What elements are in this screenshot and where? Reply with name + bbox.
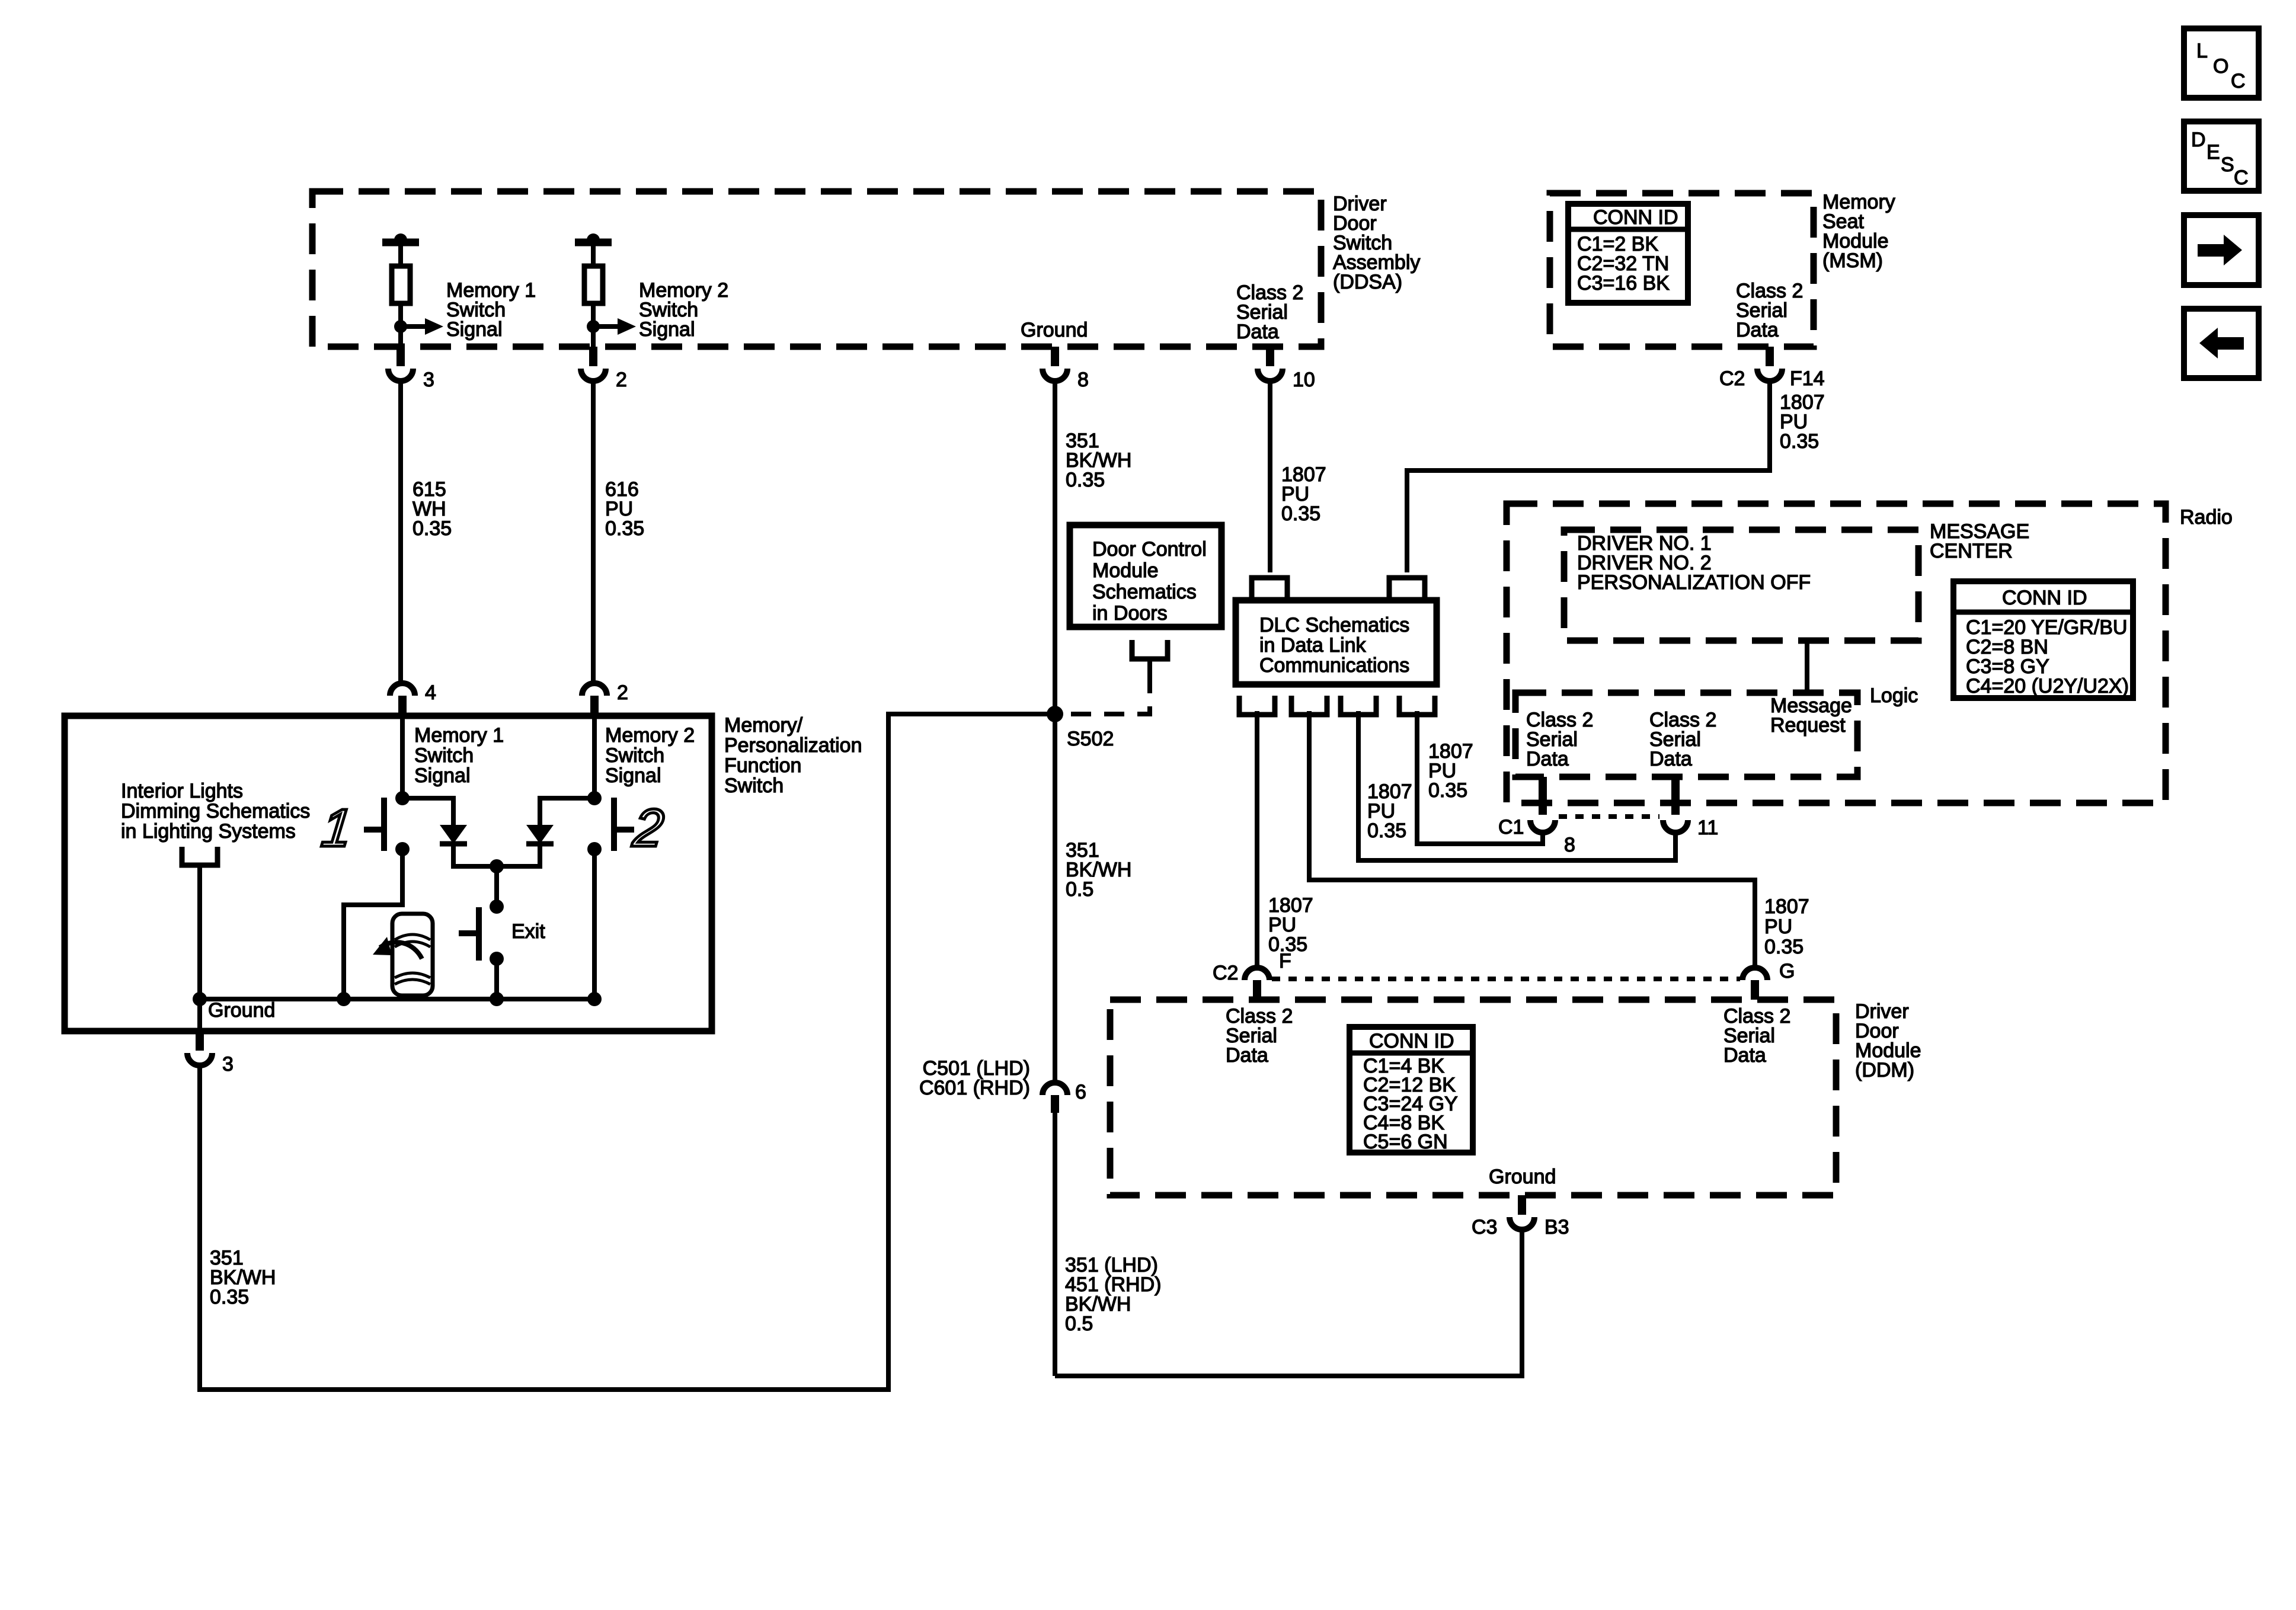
bracket below Door Control Module box (1132, 640, 1168, 659)
svg-text:0.35: 0.35 (412, 517, 452, 540)
svg-text:Data: Data (1649, 748, 1692, 770)
box Door Control Module reference (1070, 525, 1221, 627)
label wire 1807 PU 0.35 pin10 (1281, 463, 1326, 525)
switch 1 actuator (364, 827, 381, 833)
connector pin 10 DDSA serial data (1266, 347, 1274, 366)
svg-text:Schematics: Schematics (1092, 581, 1197, 603)
svg-text:8: 8 (1077, 369, 1089, 391)
svg-text:Communications: Communications (1259, 654, 1409, 677)
label Class 2 Serial Data radio left (1526, 709, 1593, 770)
node switch 1 bottom dot (395, 842, 410, 856)
svg-text:3: 3 (222, 1053, 234, 1076)
wire R1 to pin 3 (398, 303, 403, 347)
node R1 top dot (394, 233, 407, 247)
svg-text:S: S (2221, 153, 2234, 176)
label MSM conn rows (1577, 233, 1670, 295)
svg-text:C601 (RHD): C601 (RHD) (919, 1077, 1030, 1099)
table CONN ID DDM (1350, 1027, 1473, 1153)
svg-text:0.35: 0.35 (1428, 779, 1467, 802)
label wire 351 BK/WH 0.5 (1066, 839, 1131, 901)
svg-text:2: 2 (617, 681, 628, 704)
wire R1 stem (398, 242, 403, 266)
connector C3 B3 DDM (1518, 1195, 1526, 1215)
wire dotted link F G (1272, 977, 1740, 981)
svg-text:Ground: Ground (208, 999, 275, 1022)
wire DLC pin2 to DDM connector G (1309, 711, 1755, 967)
label MSM name (1822, 191, 1895, 272)
label wire 616 PU 0.35 (605, 478, 644, 540)
svg-text:DLC Schematics: DLC Schematics (1259, 614, 1409, 636)
svg-text:Signal: Signal (446, 318, 503, 341)
svg-text:Switch: Switch (724, 774, 784, 797)
wire diode 1 to junction (453, 844, 497, 866)
svg-text:Module: Module (1092, 559, 1159, 582)
bracket DLC bottom pin 2 (1291, 696, 1327, 715)
svg-text:2: 2 (630, 798, 667, 858)
svg-text:Exit: Exit (511, 920, 545, 943)
svg-text:F: F (1279, 950, 1291, 972)
svg-text:Request: Request (1770, 714, 1846, 737)
svg-text:0.35: 0.35 (1367, 820, 1406, 842)
box Logic dashed border (1515, 693, 1857, 777)
svg-text:E: E (2207, 141, 2220, 164)
label Class 2 Serial Data radio right (1649, 709, 1716, 770)
exit switch contact bar (476, 907, 482, 961)
wire 351 BK/WH 0.35 left ground run (200, 714, 1051, 1390)
svg-text:0.35: 0.35 (1066, 469, 1105, 491)
icon box arrow left (2184, 309, 2259, 378)
resistor R1 (392, 266, 410, 303)
label wire 351 BK/WH 0.35 left (210, 1247, 276, 1308)
label DDSA name (1333, 193, 1420, 293)
svg-text:O: O (2213, 55, 2228, 78)
icon box arrow right (2184, 215, 2259, 285)
node ground bus dot B (337, 992, 351, 1006)
svg-text:4: 4 (425, 681, 436, 704)
label wire 351 BK/WH 0.35 upper (1066, 430, 1131, 491)
svg-text:PU: PU (1764, 916, 1792, 938)
label wire 615 WH 0.35 (412, 478, 452, 540)
svg-text:Data: Data (1723, 1044, 1766, 1067)
bracket DLC top pin A (1252, 578, 1287, 597)
diode D1 (440, 825, 467, 844)
wire 616 PU (591, 382, 596, 681)
svg-text:Memory/: Memory/ (724, 714, 803, 737)
node switch 2 top dot (587, 791, 602, 805)
wire switch 1 to ground bus (344, 849, 402, 999)
wire 351/451 BK/WH below connector 6 (1053, 1113, 1057, 1376)
svg-text:Radio: Radio (2180, 506, 2233, 529)
label Memory 1 Switch Signal (446, 279, 536, 341)
wire R2 to pin 2 (591, 303, 596, 347)
wire DDM ground to connector 6 (1055, 1230, 1522, 1376)
svg-text:C: C (2234, 167, 2249, 189)
connector 6 C501/C601 (1043, 1083, 1067, 1095)
svg-text:CONN ID: CONN ID (1369, 1030, 1454, 1052)
icon box DESC (2184, 121, 2259, 191)
bracket Interior Lights reference (182, 847, 218, 865)
svg-text:Switch: Switch (414, 744, 474, 767)
connector C2 F DDM (1245, 968, 1269, 980)
wire exit switch to ground bus (494, 959, 499, 999)
svg-text:10: 10 (1293, 369, 1315, 391)
node ground bus dot C (490, 992, 504, 1006)
bracket DLC top pin B (1389, 578, 1425, 597)
svg-text:Door Control: Door Control (1092, 538, 1207, 561)
node exit switch top dot (490, 900, 504, 914)
resistor R2 (584, 266, 603, 303)
label Class 2 Serial Data DDSA (1236, 281, 1303, 343)
resistor R1 terminal bar (382, 239, 419, 247)
svg-text:G: G (1779, 960, 1795, 982)
svg-text:1807: 1807 (1764, 895, 1809, 918)
svg-text:0.5: 0.5 (1065, 1313, 1093, 1335)
signal arrow Memory 2 (593, 324, 618, 329)
wire message request (1805, 641, 1809, 693)
svg-text:S502: S502 (1067, 728, 1114, 750)
switch 2 actuator (617, 827, 634, 833)
svg-text:Memory 1: Memory 1 (414, 724, 504, 747)
box Memory Seat Module MSM dashed border (1550, 193, 1814, 347)
box Driver Door Switch Assembly DDSA dashed border (312, 191, 1321, 347)
box DLC Schematics reference (1236, 600, 1437, 684)
wire switch 2 to ground bus (592, 849, 597, 999)
label Door Control Module Schematics in Doors (1092, 538, 1207, 625)
label Memory Personalization Function Switch (724, 714, 862, 797)
svg-text:CONN ID: CONN ID (1593, 206, 1678, 229)
svg-text:0.35: 0.35 (605, 517, 644, 540)
svg-text:Signal: Signal (605, 764, 661, 787)
resistor R2 terminal bar (575, 239, 612, 247)
box Radio dashed border (1507, 504, 2166, 803)
label Memory 2 Switch Signal inside (605, 724, 695, 787)
label radio conn rows (1966, 616, 2129, 697)
label C501 LHD C601 RHD (919, 1057, 1030, 1099)
svg-text:C3=16 BK: C3=16 BK (1577, 272, 1670, 295)
bracket DLC bottom pin 3 (1341, 696, 1376, 715)
label Memory 2 Switch Signal (639, 279, 728, 341)
svg-text:1: 1 (319, 798, 355, 858)
svg-text:Dimming Schematics: Dimming Schematics (121, 800, 310, 822)
label Memory 1 Switch Signal inside (414, 724, 504, 787)
wire diode 2 to junction (497, 844, 540, 866)
wire stub from bracket (1147, 659, 1152, 673)
svg-text:Data: Data (1236, 321, 1279, 343)
wire diode 2 branch (540, 798, 594, 825)
svg-text:Signal: Signal (639, 318, 695, 341)
wire 1807 PU from MSM to DLC (1407, 382, 1770, 572)
connector G DDM (1742, 968, 1767, 980)
svg-text:C: C (2231, 70, 2246, 92)
node R2 junction dot (587, 320, 600, 333)
label DDM conn rows (1363, 1055, 1458, 1153)
svg-text:B3: B3 (1544, 1216, 1569, 1238)
switch 1 contact bar (381, 798, 387, 851)
svg-text:Data: Data (1226, 1044, 1268, 1067)
svg-text:0.35: 0.35 (1764, 936, 1803, 958)
svg-text:Ground: Ground (1021, 319, 1088, 341)
node R1 junction dot (394, 320, 407, 333)
svg-text:Data: Data (1736, 319, 1779, 341)
svg-text:C2: C2 (1213, 962, 1238, 984)
svg-text:11: 11 (1697, 817, 1718, 839)
wire R2 stem (591, 242, 596, 266)
bracket DLC bottom pin 4 (1399, 696, 1435, 715)
label wire 351 LHD 451 RHD BK/WH 0.5 (1065, 1254, 1161, 1335)
svg-text:(DDSA): (DDSA) (1333, 271, 1402, 293)
box Driver Door Module DDM dashed border (1110, 1000, 1836, 1195)
svg-text:(MSM): (MSM) (1822, 249, 1883, 272)
connector pin 3 DDSA (396, 347, 405, 366)
svg-text:in Lighting Systems: in Lighting Systems (121, 820, 296, 843)
svg-text:Logic: Logic (1870, 684, 1918, 707)
label wire 1807 PU 0.35 to F (1268, 894, 1313, 956)
wire dotted link pin8 pin11 (1559, 814, 1659, 819)
svg-text:Function: Function (724, 754, 801, 777)
connector pin 8 DDSA ground (1051, 347, 1059, 366)
connector pin 4 above memory box (390, 683, 415, 696)
bracket DLC bottom pin 1 (1239, 696, 1275, 715)
svg-text:in Doors: in Doors (1092, 602, 1168, 625)
label DDM name (1855, 1000, 1921, 1081)
label wire 1807 PU 0.35 MSM (1780, 391, 1825, 453)
svg-text:PERSONALIZATION OFF: PERSONALIZATION OFF (1577, 571, 1811, 594)
node S502 junction dot (1047, 706, 1063, 722)
wire 1807 PU from DDSA pin 10 to DLC (1268, 382, 1272, 572)
label Class 2 Serial Data DDM left (1226, 1005, 1293, 1067)
box Memory Personalization Function Switch (65, 716, 712, 1031)
svg-text:2: 2 (616, 369, 627, 391)
svg-text:C4=20 (U2Y/U2X): C4=20 (U2Y/U2X) (1966, 675, 2129, 697)
svg-text:Memory 2: Memory 2 (605, 724, 695, 747)
wire DLC pin4 to radio pin 8 (1417, 711, 1543, 844)
svg-text:C3: C3 (1472, 1216, 1497, 1238)
label Class 2 Serial Data DDM right (1723, 1005, 1790, 1067)
wire diode 1 branch (402, 798, 453, 825)
wire 351 BK/WH from DDSA pin 8 to S502 (1053, 382, 1057, 714)
exit switch actuator (459, 930, 476, 936)
svg-text:in Data Link: in Data Link (1259, 634, 1367, 657)
svg-text:8: 8 (1564, 834, 1575, 856)
table CONN ID MSM (1568, 204, 1688, 303)
connector pin 2 DDSA (589, 347, 597, 366)
svg-text:C5=6 GN: C5=6 GN (1363, 1131, 1448, 1153)
node ground bus dot D (587, 992, 602, 1006)
label Class 2 Serial Data MSM (1736, 280, 1803, 341)
node exit switch bottom dot (490, 952, 504, 966)
label Message Request (1770, 694, 1852, 737)
svg-text:CONN ID: CONN ID (2002, 587, 2087, 609)
wire DLC pin1 to DDM connector F (1255, 711, 1259, 968)
svg-text:Switch: Switch (605, 744, 664, 767)
ground bus wire (200, 997, 594, 1001)
svg-text:Data: Data (1526, 748, 1569, 770)
connector pin 11 radio (1671, 777, 1680, 815)
svg-text:0.35: 0.35 (1780, 430, 1819, 453)
svg-text:0.35: 0.35 (210, 1286, 249, 1308)
svg-text:F14: F14 (1790, 367, 1825, 390)
svg-text:Signal: Signal (414, 764, 471, 787)
node switch 2 bottom dot (587, 842, 602, 856)
signal arrow Memory 1 (401, 324, 425, 329)
diode D2 (526, 825, 554, 844)
connector pin 2 above memory box (582, 683, 607, 696)
label wire 1807 PU 0.35 pin4 (1428, 740, 1473, 802)
wire junction to exit switch (494, 866, 499, 907)
wire interior lights to ground bus (197, 864, 202, 1031)
node R2 top dot (587, 233, 600, 247)
table CONN ID radio (1953, 581, 2133, 698)
connector C2 F14 MSM (1766, 347, 1774, 366)
svg-text:C2: C2 (1719, 367, 1745, 390)
svg-text:Ground: Ground (1489, 1166, 1556, 1188)
wire dashed jumper to S502 (1063, 673, 1150, 714)
connector C1 pin 8 radio (1539, 777, 1547, 815)
node switch 1 top dot (395, 791, 410, 805)
car icon (392, 914, 433, 996)
label MESSAGE CENTER (1930, 520, 2029, 562)
switch 2 contact bar (611, 798, 617, 851)
wire switch 1 input (400, 716, 405, 798)
wire 351 BK/WH 0.5 from S502 to C501 (1053, 714, 1057, 1083)
label Interior Lights Dimming Schematics (121, 780, 310, 843)
box Message Center dashed border (1564, 530, 1918, 641)
svg-text:0.35: 0.35 (1281, 502, 1320, 525)
svg-text:3: 3 (423, 369, 434, 391)
svg-text:C1: C1 (1498, 816, 1524, 838)
svg-text:(DDM): (DDM) (1855, 1059, 1914, 1081)
svg-text:Interior Lights: Interior Lights (121, 780, 243, 802)
label DLC Schematics in Data Link Communications (1259, 614, 1409, 677)
svg-text:6: 6 (1075, 1081, 1086, 1103)
label wire 1807 PU 0.35 to G (1764, 895, 1809, 958)
icon box LOC (2184, 28, 2259, 98)
svg-text:D: D (2191, 129, 2206, 151)
node diode junction dot (490, 859, 504, 873)
wire switch 2 input (592, 716, 597, 798)
svg-text:L: L (2196, 40, 2208, 62)
svg-text:Personalization: Personalization (724, 734, 862, 757)
svg-text:0.5: 0.5 (1066, 878, 1093, 901)
connector pin 3 below memory box (196, 1031, 204, 1051)
wire 615 WH (398, 382, 403, 681)
svg-text:CENTER: CENTER (1930, 540, 2013, 562)
label wire 1807 PU 0.35 pin3 (1367, 780, 1412, 842)
node ground bus dot A (193, 992, 207, 1006)
label driver modes (1577, 532, 1811, 594)
wire DLC pin3 to radio pin 11 (1358, 711, 1675, 860)
